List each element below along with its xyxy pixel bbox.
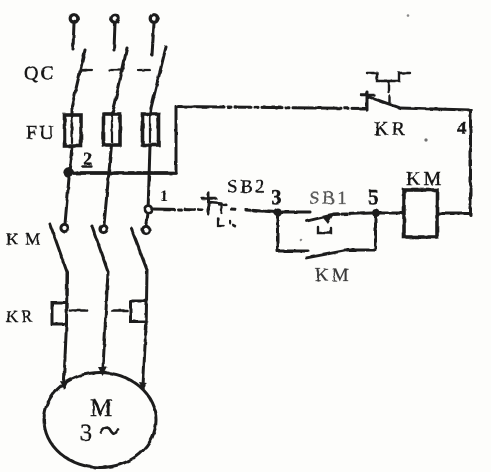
motor entry arrow L1 [60, 381, 68, 390]
phase terminal L1 [70, 15, 78, 49]
motor entry arrow L2 [98, 367, 108, 376]
wire node5 to coil [379, 212, 404, 215]
pushbutton SB1 actuator bracket [318, 227, 331, 233]
thermal relay KR contact blade [369, 97, 399, 108]
control wire node1 to SB2 (dash-dot) [152, 209, 203, 210]
wire L2 fuse to contact [104, 145, 112, 225]
wire L3 node1 to contact [146, 213, 148, 226]
svg-text:KR: KR [374, 118, 408, 140]
contactor KM main contact 1 [50, 224, 68, 272]
wire L3 fuse to node 1 [148, 145, 150, 206]
thermal relay KR release symbol [367, 73, 410, 92]
contactor KM main contact 3 [131, 226, 150, 270]
switch QC blade 3 [151, 47, 166, 108]
svg-text:KM: KM [6, 230, 47, 249]
phase terminal L2 [111, 15, 119, 50]
label 2 (underlined) [83, 149, 93, 169]
wire L1 fuse to node 2 [70, 146, 73, 172]
contactor KM auxiliary contact blade [306, 250, 348, 258]
node 1 circle [145, 206, 152, 213]
wire coil to right riser [437, 212, 471, 215]
svg-text:4: 4 [457, 118, 467, 139]
scan speck near coil [424, 138, 427, 141]
fuse FU2 [104, 103, 121, 145]
wire L1 contact to motor [64, 272, 67, 384]
thermal relay KR fixed contact tick [388, 96, 390, 103]
wire KR to right riser [399, 108, 471, 110]
pushbutton SB2 terminals [218, 218, 235, 226]
wire aux branch bottom left [278, 250, 309, 253]
wire aux branch up to node5 [374, 214, 377, 250]
wire right riser [469, 110, 472, 215]
control wire SB2 to node 3 (dash-dot) [231, 209, 277, 212]
switch QC blade 2 [115, 48, 127, 103]
fuse FU3 [143, 108, 159, 145]
control wire node3 to SB1 [281, 211, 310, 214]
thermal relay KR heater 3 [131, 301, 147, 322]
wire node 2 horizontal [69, 171, 177, 175]
wire node3 down (aux branch) [276, 212, 279, 251]
svg-text:3: 3 [80, 421, 92, 447]
wire L3 contact to motor [143, 270, 147, 386]
thermal relay KR contact terminal tick [361, 92, 374, 110]
wire L1 node 2 to contact [65, 172, 70, 224]
pushbutton SB1 plunger tip [322, 216, 333, 225]
phase terminal L3 [150, 15, 158, 55]
svg-text:1: 1 [160, 188, 168, 205]
node 3 junction dot [274, 208, 282, 216]
contactor KM main contact 2 [92, 225, 108, 272]
scan speck top right [407, 14, 410, 17]
pushbutton SB1 blade [307, 215, 332, 221]
svg-text:SB1: SB1 [309, 188, 349, 209]
wire riser to control line [175, 107, 178, 173]
control wire node2 riser to KR (dash-dot) [176, 107, 366, 109]
svg-text:KR: KR [6, 307, 36, 326]
switch QC mechanical link (dashed) [80, 69, 152, 71]
svg-text:5: 5 [368, 185, 379, 209]
svg-text:KM: KM [406, 168, 444, 190]
switch QC blade 1 [72, 50, 85, 106]
control wire SB1 to node 5 (dash-dot) [334, 213, 372, 215]
svg-text:KM: KM [315, 265, 352, 286]
coil KM [404, 190, 437, 237]
motor M circle [44, 373, 156, 468]
thermal relay KR heater 1 [52, 303, 67, 325]
node 2 junction dot [63, 167, 73, 177]
svg-text:SB2: SB2 [227, 177, 267, 198]
wire aux branch bottom right [345, 249, 376, 252]
scan speck near aux contact [300, 239, 303, 242]
svg-text:M: M [90, 395, 112, 422]
wire L2 contact to motor [103, 272, 108, 368]
node 5 junction dot [372, 209, 380, 217]
thermal relay KR mechanical link (dashed) [70, 309, 127, 312]
svg-text:3: 3 [271, 185, 282, 209]
fuse FU1 [65, 106, 82, 146]
pushbutton SB2 plunger [202, 193, 216, 214]
motor entry arrow L3 [139, 382, 147, 391]
svg-text:FU: FU [26, 122, 56, 144]
svg-text:QC: QC [24, 63, 56, 85]
pushbutton SB2 bridge contact [209, 202, 226, 213]
label ~ (AC symbol) [101, 428, 118, 434]
